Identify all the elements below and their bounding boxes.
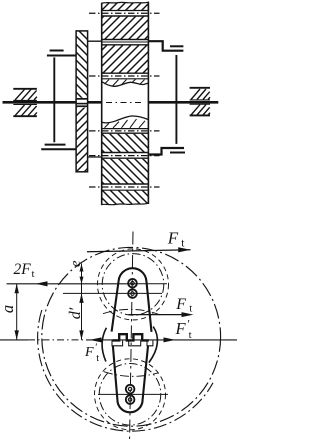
lower link plate xyxy=(113,346,148,412)
svg-text:e: e xyxy=(68,260,84,267)
swing arc upper xyxy=(103,309,162,315)
bottom joint pitch circle xyxy=(99,364,161,426)
chain pin line 4 xyxy=(89,155,160,157)
upper link plate xyxy=(112,268,152,332)
middle link teeth xyxy=(112,334,149,340)
dim a arrows xyxy=(15,284,19,340)
chain strand right xyxy=(148,41,185,154)
svg-text:t: t xyxy=(181,237,185,249)
chain pin line 2 xyxy=(89,75,160,77)
joint line bottom xyxy=(98,393,168,395)
svg-text:2F: 2F xyxy=(14,261,32,278)
middle link end curve right xyxy=(149,327,158,363)
arrow Ft mid xyxy=(182,312,194,317)
vertical centerline xyxy=(130,232,134,443)
swing arc lower xyxy=(104,372,158,377)
disc plate xyxy=(76,31,88,172)
svg-text:F: F xyxy=(175,296,186,313)
svg-text:t: t xyxy=(32,268,35,280)
arrow Ft top xyxy=(178,247,190,252)
shaft xyxy=(3,101,219,104)
bearing right xyxy=(190,88,210,116)
dim e arrows xyxy=(80,264,84,284)
arrow 2Ft xyxy=(36,281,48,286)
top joint pitch circle xyxy=(102,254,164,316)
sprocket block B2 xyxy=(102,159,149,184)
bearing left xyxy=(13,89,37,116)
svg-text:t: t xyxy=(96,353,99,364)
arrow Ftp right xyxy=(164,337,176,342)
rim band with wavy break xyxy=(102,78,149,80)
svg-text:d′: d′ xyxy=(67,307,84,319)
chain pin line 1 xyxy=(89,12,160,14)
svg-text:′: ′ xyxy=(95,343,97,354)
sprocket block B xyxy=(102,17,149,40)
sprocket side faces xyxy=(102,2,149,205)
middle link end curve left xyxy=(102,328,106,362)
force line 2Ft xyxy=(7,283,133,285)
sprocket band line xyxy=(102,15,149,17)
svg-text:t: t xyxy=(189,329,192,341)
sprocket rim bottom teeth xyxy=(102,190,149,205)
joint line top xyxy=(132,283,167,285)
dim dprime arrows xyxy=(79,293,83,340)
chain mid line xyxy=(102,41,149,43)
svg-text:F: F xyxy=(175,319,187,338)
arrow Ftp left xyxy=(90,337,102,342)
sprocket block C xyxy=(102,45,149,72)
force line Ft mid xyxy=(129,314,191,316)
chain strand left xyxy=(41,51,76,150)
chain line over disc xyxy=(88,41,102,157)
dim e and dprime line xyxy=(81,264,83,340)
force line Ft top xyxy=(87,250,191,252)
top joint outer circle xyxy=(98,249,169,320)
horizontal axis xyxy=(0,339,237,341)
hub wavy break bottom xyxy=(102,116,149,123)
sprocket rim top teeth xyxy=(102,2,149,10)
svg-text:t: t xyxy=(189,303,192,315)
bottom joint outer circle xyxy=(95,359,166,430)
svg-text:F: F xyxy=(167,228,179,247)
roller top 1 xyxy=(128,279,137,288)
roller top 2 xyxy=(128,289,137,298)
sprocket block C2 xyxy=(102,134,149,152)
chain pin line 3 xyxy=(89,130,160,132)
chain outer circle arc xyxy=(38,310,213,431)
middle link sockets xyxy=(112,341,153,346)
svg-text:a: a xyxy=(0,305,17,313)
dim a line xyxy=(16,284,18,340)
svg-text:F: F xyxy=(84,345,94,360)
roller bottom 2 xyxy=(126,395,135,404)
sprocket pitch circle xyxy=(42,247,221,426)
joint line mid xyxy=(63,292,162,294)
roller bottom 1 xyxy=(126,385,135,394)
chain pin line 5 xyxy=(89,186,160,188)
